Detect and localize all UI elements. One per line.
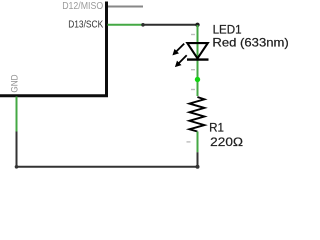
svg-text:220Ω: 220Ω bbox=[210, 136, 243, 149]
R1 pin1 number label bbox=[191, 89, 195, 90]
IC body outline U1 (cropped) bbox=[0, 2, 107, 96]
corner bendpoint at LED1 pin1 bbox=[195, 23, 199, 27]
pin D12/MISO bbox=[108, 6, 143, 8]
LED1 pin1 number label bbox=[191, 34, 195, 35]
svg-text:R1: R1 bbox=[209, 121, 224, 134]
svg-text:D13/SCK: D13/SCK bbox=[68, 20, 103, 31]
pin D13/SCK bbox=[108, 24, 144, 26]
wire D13/SCK to LED1 bbox=[143, 24, 198, 26]
resistor R1 zigzag bbox=[189, 97, 204, 132]
wire R1 to GND bbox=[17, 132, 198, 167]
R1 pin2 number label bbox=[187, 141, 191, 142]
svg-text:LED1: LED1 bbox=[213, 23, 242, 36]
bendpoint on D13 wire bbox=[141, 23, 145, 27]
LED1 cathode bar bbox=[187, 58, 209, 60]
bendpoint bottom-left corner bbox=[15, 165, 19, 169]
junction node LED1.2 / R1.1 bbox=[195, 77, 200, 82]
LED1 triangle (anode) bbox=[187, 43, 208, 58]
bendpoint bottom-right corner bbox=[196, 165, 200, 169]
R1 bottom pin leg bbox=[197, 132, 199, 153]
pin GND bbox=[16, 97, 18, 132]
LED1 light arrow 2 bbox=[175, 55, 187, 67]
svg-text:GND: GND bbox=[10, 74, 20, 92]
svg-text:Red (633nm): Red (633nm) bbox=[212, 37, 289, 50]
svg-text:D12/MISO: D12/MISO bbox=[62, 1, 103, 12]
LED1 pin legs (vertical green through symbol) bbox=[197, 25, 199, 96]
LED1 light arrow 1 bbox=[172, 44, 184, 56]
LED1 pin2 number label bbox=[191, 69, 195, 70]
